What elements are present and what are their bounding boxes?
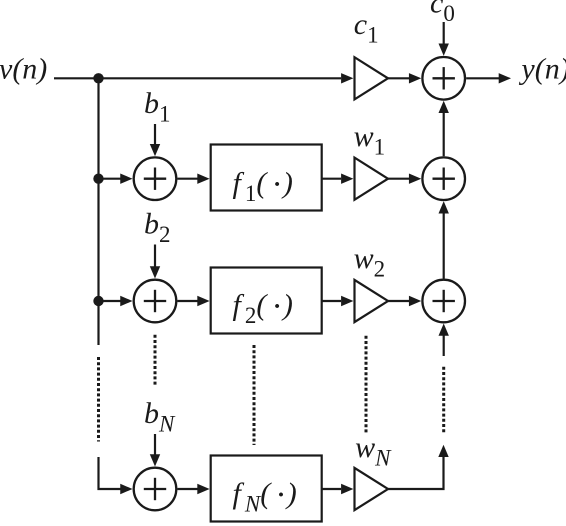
wire: bus to adder A1 [99, 178, 121, 180]
label c0 [430, 0, 455, 26]
arrowhead into gain w1 [341, 174, 353, 184]
arrowhead into block f2 [197, 296, 209, 306]
wire: dotted continuation f-block column [253, 345, 256, 445]
arrowhead into summer S0 (from c1) [409, 73, 421, 83]
arrowhead into adder A1 (from b1) [150, 144, 160, 156]
arrowhead pointing up from wN branch [438, 445, 448, 457]
wire: summer S1 up to summer S0 [443, 113, 445, 157]
wire: block fN to gain wN [322, 488, 341, 490]
svg-text:b2: b2 [144, 208, 171, 248]
svg-text:w2: w2 [354, 242, 386, 282]
svg-text:c1: c1 [354, 8, 379, 48]
adder A2 (circle with plus) [134, 280, 177, 323]
arrowhead at output y(n) [499, 73, 511, 83]
wire: left vertical bus [97, 78, 99, 345]
wire: dotted continuation summer column [442, 367, 445, 433]
wire: b1 input line [154, 124, 156, 144]
arrowhead into gain c1 [341, 73, 353, 83]
summer S2 (adder circle) [422, 280, 465, 323]
arrowhead into summer S2 (from w2) [409, 296, 421, 306]
svg-text:b1: b1 [144, 87, 171, 127]
block f1 [211, 145, 322, 211]
wire: gain w1 to summer S1 [388, 178, 409, 180]
svg-text:v(n): v(n) [0, 53, 47, 86]
arrowhead into adder A2 [120, 296, 132, 306]
gain c1 (triangle amplifier) [355, 57, 389, 99]
wire: input line from v(n) to gain c1 [54, 77, 341, 79]
wire: gain wN elbow toward summer column [388, 457, 444, 489]
svg-text:bN: bN [144, 397, 176, 437]
arrowhead into summer S1 (from S2) [439, 201, 449, 213]
arrowhead into block fN [197, 484, 209, 494]
block f2 [211, 268, 322, 334]
wire: gain c1 to summer S0 [388, 77, 409, 79]
wire: dotted continuation adder column [154, 335, 157, 387]
label w1 [354, 120, 386, 160]
wire: gain w2 to summer S2 [388, 300, 409, 302]
label fN(.) [233, 477, 297, 517]
arrowhead into adder AN (from bN) [150, 454, 160, 466]
node: branch dot row 2 [93, 296, 103, 306]
block fN [211, 456, 322, 522]
label wN [355, 431, 392, 471]
gain w1 (triangle amplifier) [355, 158, 389, 200]
arrowhead into gain w2 [341, 296, 353, 306]
node: branch dot row 1 [93, 174, 103, 184]
wire: output line [466, 77, 499, 79]
wire: adder AN to block fN [177, 488, 197, 490]
node: branch dot on input line [93, 73, 103, 83]
wire: dotted continuation w-gain column [365, 336, 368, 435]
svg-text:f2( ·): f2( ·) [233, 288, 293, 328]
wire: block f1 to gain w1 [322, 178, 341, 180]
wire: bN input line [154, 434, 156, 455]
label v(n) [0, 53, 47, 86]
summer S1 (adder circle) [422, 157, 465, 200]
svg-text:w1: w1 [354, 120, 386, 160]
adder AN (circle with plus) [134, 468, 177, 511]
arrowhead into summer S0 (from c0) [439, 44, 449, 56]
arrowhead into adder A1 [120, 174, 132, 184]
label y(n) [518, 53, 566, 86]
svg-text:c0: c0 [430, 0, 455, 26]
label b2 [144, 208, 171, 248]
arrowhead into adder AN [120, 484, 132, 494]
arrowhead into block f1 [197, 174, 209, 184]
wire: block f2 to gain w2 [322, 300, 341, 302]
arrowhead into summer S2 (from below) [439, 323, 449, 335]
adder A1 (circle with plus) [134, 157, 177, 200]
arrowhead into summer S0 (from S1) [439, 101, 449, 113]
label w2 [354, 242, 386, 282]
summer S0 (top adder circle) [422, 57, 465, 100]
arrowhead into adder A2 (from b2) [150, 266, 160, 278]
wire: dotted continuation of left bus [97, 357, 100, 442]
label b1 [144, 87, 171, 127]
svg-text:f1( ·): f1( ·) [233, 166, 293, 206]
wire: c0 input line [443, 22, 445, 44]
gain wN (triangle amplifier) [355, 468, 389, 510]
wire: adder A2 to block f2 [177, 300, 197, 302]
label bN [144, 397, 176, 437]
wire: line into summer S2 from below [443, 335, 445, 356]
wire: adder A1 to block f1 [177, 178, 197, 180]
svg-text:fN( ·): fN( ·) [233, 477, 297, 517]
label f2(.) [233, 288, 293, 328]
wire: b2 input line [154, 245, 156, 267]
arrowhead into summer S1 (from w1) [409, 174, 421, 184]
wire: summer S2 up to summer S1 [443, 213, 445, 279]
wire: left bus elbow into adder AN [99, 457, 121, 489]
gain w2 (triangle amplifier) [355, 280, 389, 322]
svg-text:y(n): y(n) [518, 53, 566, 86]
svg-text:wN: wN [355, 431, 392, 471]
wire: bus to adder A2 [99, 300, 121, 302]
label c1 [354, 8, 379, 48]
arrowhead into gain wN [341, 484, 353, 494]
label f1(.) [233, 166, 293, 206]
